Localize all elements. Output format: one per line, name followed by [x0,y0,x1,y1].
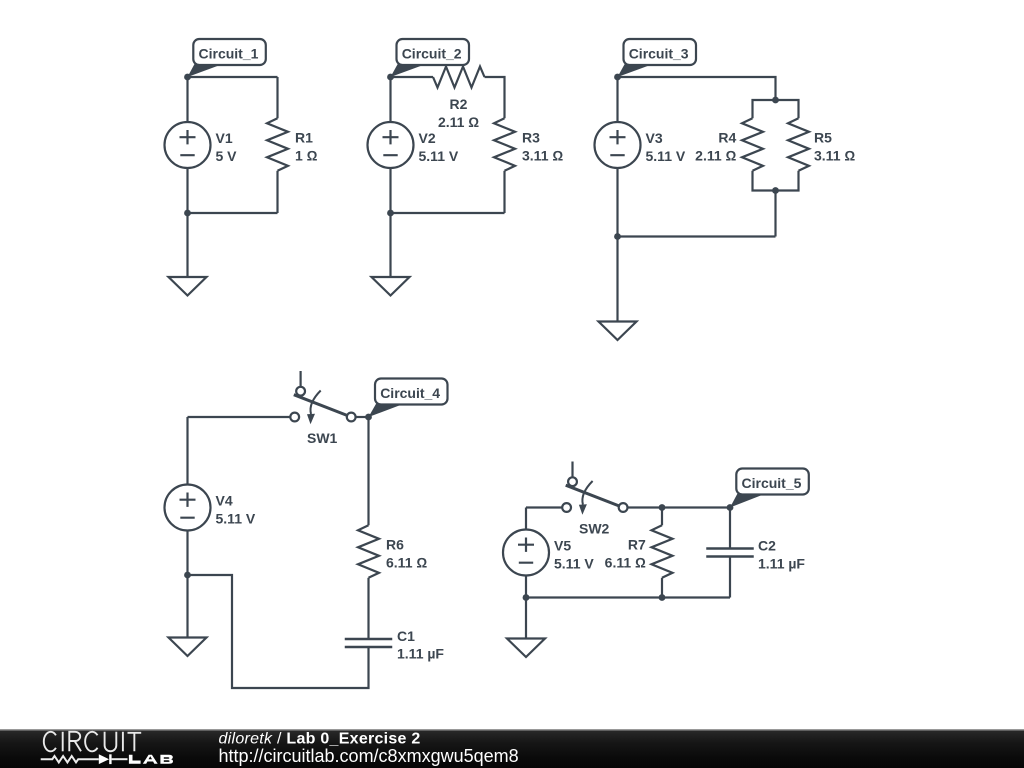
svg-text:R7: R7 [628,537,646,553]
wire parallel right branch bottom [776,171,799,191]
node bottom C3 [614,233,621,240]
resistor R3 [494,118,563,171]
wire V4 bottom to ground stub [186,531,188,638]
svg-text:V5: V5 [554,538,571,554]
wire top C1 [188,76,278,78]
wire V2 top [389,77,391,122]
wire parallel block bottom [774,191,776,237]
wire top-left C2 [391,76,434,78]
wire R3 bottom [503,171,505,213]
wire parallel right branch top [776,100,799,118]
svg-text:5.11 V: 5.11 V [554,556,594,572]
node C2 top [727,504,734,511]
svg-text:1 Ω: 1 Ω [295,148,318,164]
ground C3 [599,322,637,341]
resistor R4 [695,118,763,171]
label Circuit_1 [188,39,266,77]
voltage source V4 [165,485,256,531]
label Circuit_4 [369,379,448,418]
svg-text:V2: V2 [419,130,436,146]
svg-text:Circuit_5: Circuit_5 [742,475,802,491]
svg-text:R1: R1 [295,130,313,146]
node top C3 [614,74,621,81]
wire parallel left branch top [753,100,776,118]
svg-text:V1: V1 [216,130,233,146]
svg-text:R4: R4 [718,130,736,146]
label Circuit_5 [730,469,809,508]
wire V5 bottom to ground stub [525,576,527,639]
svg-text:Circuit_4: Circuit_4 [380,385,440,401]
voltage source V1 [165,122,238,168]
svg-text:6.11 Ω: 6.11 Ω [386,555,427,571]
node R7 bottom [659,594,666,601]
svg-text:3.11 Ω: 3.11 Ω [814,148,855,164]
wire C1 bottom loop [188,575,369,688]
wire V3 bottom to ground stub [616,168,618,322]
ground C2 [372,277,410,296]
ground C5 [507,639,545,658]
svg-text:C1: C1 [397,628,415,644]
resistor R2 [433,67,485,130]
wire bottom C5 [526,596,730,598]
node bottom C1 [184,210,191,217]
svg-text:R2: R2 [450,96,468,112]
node bottom C2 [387,210,394,217]
node R7 top [659,504,666,511]
svg-text:diloretk / Lab 0_Exercise 2: diloretk / Lab 0_Exercise 2 [219,731,421,748]
svg-text:Circuit_2: Circuit_2 [402,46,462,62]
wire bottom C1 [188,212,278,214]
svg-text:C2: C2 [758,538,776,554]
wire SW2 to C2 branch [628,506,731,508]
svg-text:5 V: 5 V [216,148,238,164]
svg-text:SW2: SW2 [579,521,610,537]
capacitor C1 [345,628,445,662]
node parallel bottom [772,187,779,194]
svg-text:R6: R6 [386,537,404,553]
svg-text:6.11 Ω: 6.11 Ω [605,555,646,571]
node SW1 common out [365,414,372,421]
svg-text:2.11 Ω: 2.11 Ω [438,114,479,130]
voltage source V2 [368,122,459,168]
wire bottom C3 [618,235,776,237]
wire R7 bottom [661,578,663,598]
svg-text:R3: R3 [522,130,540,146]
svg-text:3.11 Ω: 3.11 Ω [522,148,563,164]
wire R7 top [661,508,663,526]
resistor R5 [788,118,855,171]
resistor R7 [605,525,673,578]
resistor R6 [358,525,427,578]
CircuitLab logo [44,732,141,752]
wire V4 top [186,417,188,485]
wire C2 top [729,508,731,549]
svg-text:5.11 V: 5.11 V [216,511,256,527]
voltage source V5 [503,530,594,576]
node top C2 [387,74,394,81]
label Circuit_3 [618,39,697,77]
wire top-right C2 [485,77,505,118]
svg-text:V3: V3 [646,130,663,146]
wire V3 top [616,77,618,122]
svg-text:1.11 µF: 1.11 µF [397,646,444,662]
wire top C3 [618,77,776,100]
node V4 bottom [184,572,191,579]
wire V1 top [186,77,188,122]
resistor R1 [267,118,318,171]
wire R1 bottom [276,171,278,213]
voltage source V3 [595,122,686,168]
svg-text:1.11 µF: 1.11 µF [758,556,805,572]
label Circuit_2 [391,39,470,77]
switch SW1 [290,371,355,446]
wire R1 top [276,77,278,118]
svg-text:5.11 V: 5.11 V [419,148,459,164]
wire top-left C4 [188,416,291,418]
svg-text:Circuit_1: Circuit_1 [199,46,259,62]
wire top-left C5 [526,506,562,508]
ground C1 [169,277,207,296]
wire V2 bottom to ground stub [389,168,391,277]
wire parallel left branch bottom [753,171,776,191]
wire SW1 to node [356,416,369,418]
node V5 bottom [523,594,530,601]
svg-text:5.11 V: 5.11 V [646,148,686,164]
wire R6 to C1 [367,578,369,639]
wire node to R6 [367,417,369,525]
wire bottom C2 [391,212,505,214]
wire V1 bottom to ground stub [186,168,188,277]
node parallel top [772,97,779,104]
svg-text:SW1: SW1 [307,430,338,446]
svg-text:V4: V4 [216,493,233,509]
svg-text:http://circuitlab.com/c8xmxgwu: http://circuitlab.com/c8xmxgwu5qem8 [219,746,519,766]
svg-text:Circuit_3: Circuit_3 [629,46,689,62]
node top C1 [184,74,191,81]
wire V5 top [525,508,527,530]
ground C4 [169,638,207,657]
svg-text:R5: R5 [814,130,832,146]
switch SW2 [562,462,627,537]
capacitor C2 [706,538,805,572]
svg-text:2.11 Ω: 2.11 Ω [695,148,736,164]
wire C2 bottom [729,557,731,598]
